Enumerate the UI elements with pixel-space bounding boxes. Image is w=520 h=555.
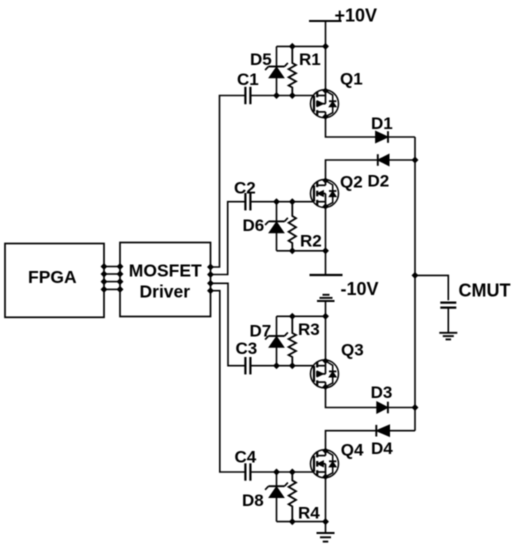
svg-text:-10V: -10V — [341, 279, 379, 299]
svg-text:+10V: +10V — [335, 6, 378, 26]
+10V supply bar — [309, 20, 342, 22]
svg-text:MOSFET: MOSFET — [129, 261, 202, 281]
wire D3 to right rail — [388, 407, 415, 409]
svg-text:C4: C4 — [235, 448, 257, 467]
svg-text:Q1: Q1 — [340, 70, 363, 89]
junction driver pin 4 — [117, 287, 123, 293]
junction gate rail / R1 — [289, 93, 295, 99]
mosfet Q4 (circle center 324.5,463.8) — [311, 448, 339, 479]
wire fpga-driver link 4 — [104, 288, 120, 290]
wire Q3 source to D3 — [326, 388, 377, 408]
wire C2 feed — [211, 202, 246, 275]
wire C1 feed — [211, 96, 246, 268]
svg-text:D4: D4 — [371, 439, 393, 458]
svg-text:R4: R4 — [298, 504, 320, 523]
wire ch3 gate rail — [250, 365, 314, 367]
junction driver output 3 — [208, 280, 214, 286]
wire ch3 top rail — [277, 315, 326, 317]
junction right rail / D2 — [412, 157, 418, 163]
svg-text:D5: D5 — [250, 50, 272, 69]
junction gate rail / R3 — [289, 363, 295, 369]
wire D2 to right rail — [389, 159, 415, 161]
mosfet Q1 (circle center 324.5,103.7) — [311, 88, 339, 119]
-10V supply battery — [310, 275, 343, 301]
junction driver output 1 — [208, 264, 214, 270]
capacitor C4 — [245, 463, 250, 480]
svg-text:Driver: Driver — [140, 282, 191, 302]
junction top rail / R1 — [289, 44, 295, 50]
resistor R4 — [289, 472, 296, 522]
zener diode D6 — [265, 202, 288, 251]
junction driver output 4 — [208, 288, 214, 294]
junction gate rail / D6 — [274, 199, 280, 205]
svg-text:D2: D2 — [368, 172, 390, 191]
wire right rail — [414, 137, 416, 431]
junction driver pin 3 — [117, 279, 123, 285]
wire fpga-driver link 1 — [104, 266, 120, 268]
junction driver pin 1 — [117, 264, 123, 270]
resistor R3 — [289, 316, 296, 365]
capacitor C2 — [245, 193, 250, 210]
junction main / ch3 top rail — [323, 313, 329, 319]
zener diode D5 — [265, 46, 288, 95]
junction driver pin 2 — [117, 271, 123, 277]
junction fpga pin 4 — [101, 287, 107, 293]
junction top rail / R3 — [289, 313, 295, 319]
wire C3 feed — [211, 283, 246, 365]
junction gate rail / D5 — [274, 93, 280, 99]
junction gate rail / D8 — [274, 469, 280, 475]
resistor R1 — [289, 46, 296, 95]
svg-text:R3: R3 — [298, 320, 320, 339]
svg-text:C1: C1 — [237, 70, 259, 89]
wire C4 feed — [211, 291, 246, 472]
svg-text:D8: D8 — [242, 491, 264, 510]
wire ch1 top rail — [277, 45, 326, 47]
svg-text:Q4: Q4 — [341, 441, 364, 460]
svg-text:FPGA: FPGA — [28, 267, 77, 287]
junction bottom rail / main — [323, 519, 329, 525]
wire ch2 bottom rail — [277, 250, 326, 252]
svg-text:D6: D6 — [243, 216, 265, 235]
zener diode D8 — [265, 472, 288, 522]
wire ch4 gate rail — [250, 471, 314, 473]
capacitor C1 — [245, 87, 250, 104]
junction right rail / CMUT — [412, 273, 418, 279]
svg-text:D3: D3 — [371, 383, 393, 402]
wire fpga-driver link 2 — [104, 273, 120, 275]
diode D2 — [378, 154, 389, 166]
wire CMUT to ground — [447, 308, 449, 333]
wire +10V rail to Q1 drain — [325, 21, 327, 90]
FPGA block — [5, 244, 104, 318]
wire D1 to right rail — [388, 136, 415, 138]
svg-text:R1: R1 — [299, 50, 321, 69]
wire Q4 source to ground — [325, 478, 327, 533]
svg-text:R2: R2 — [300, 232, 322, 251]
junction gate rail / R2 — [289, 199, 295, 205]
wire fpga-driver link 3 — [104, 281, 120, 283]
junction right rail / D3 — [412, 405, 418, 411]
wire Q4 drain to D4 — [326, 431, 377, 450]
junction fpga pin 1 — [101, 264, 107, 270]
junction fpga pin 3 — [101, 279, 107, 285]
ground CMUT ground — [439, 333, 457, 340]
resistor R2 — [289, 202, 296, 251]
junction fpga pin 2 — [101, 271, 107, 277]
svg-text:C2: C2 — [234, 178, 256, 197]
wire Q2 drain to D2 — [326, 160, 378, 180]
junction bottom rail / R4 — [289, 519, 295, 525]
capacitor C3 — [245, 357, 250, 374]
diode D3 — [377, 402, 388, 414]
svg-text:C3: C3 — [236, 339, 258, 358]
diode D1 — [376, 131, 388, 143]
svg-text:D7: D7 — [250, 322, 272, 341]
capacitor CMUT — [440, 303, 456, 308]
mosfet Q2 (circle center 324.5,193.5) — [311, 178, 339, 209]
junction gate rail / R4 — [289, 469, 295, 475]
wire ch4 bottom rail — [277, 521, 326, 523]
wire ch1 gate rail — [250, 95, 314, 97]
junction top rail / main — [323, 44, 329, 50]
svg-text:Q3: Q3 — [341, 341, 364, 360]
svg-text:D1: D1 — [371, 114, 393, 133]
wire Q1 source to D1 — [326, 118, 376, 137]
mosfet Q3 (circle center 324.5,373.9) — [311, 358, 339, 389]
wire ch2 gate rail — [250, 201, 314, 203]
zener diode D7 — [265, 316, 288, 365]
svg-text:CMUT: CMUT — [459, 281, 511, 301]
wire D4 to right rail — [390, 430, 416, 432]
junction bottom rail / R2 — [289, 248, 295, 254]
wire Q2 source to -10V — [325, 208, 327, 276]
MOSFET Driver block — [120, 243, 211, 317]
junction bottom rail / main — [323, 248, 329, 254]
wire -10V to Q3 drain — [325, 301, 327, 360]
ground main ground — [317, 533, 335, 542]
wire CMUT branch — [415, 275, 448, 300]
junction driver output 2 — [208, 272, 214, 278]
svg-text:Q2: Q2 — [340, 173, 363, 192]
junction gate rail / D7 — [274, 363, 280, 369]
diode D4 — [376, 425, 389, 437]
